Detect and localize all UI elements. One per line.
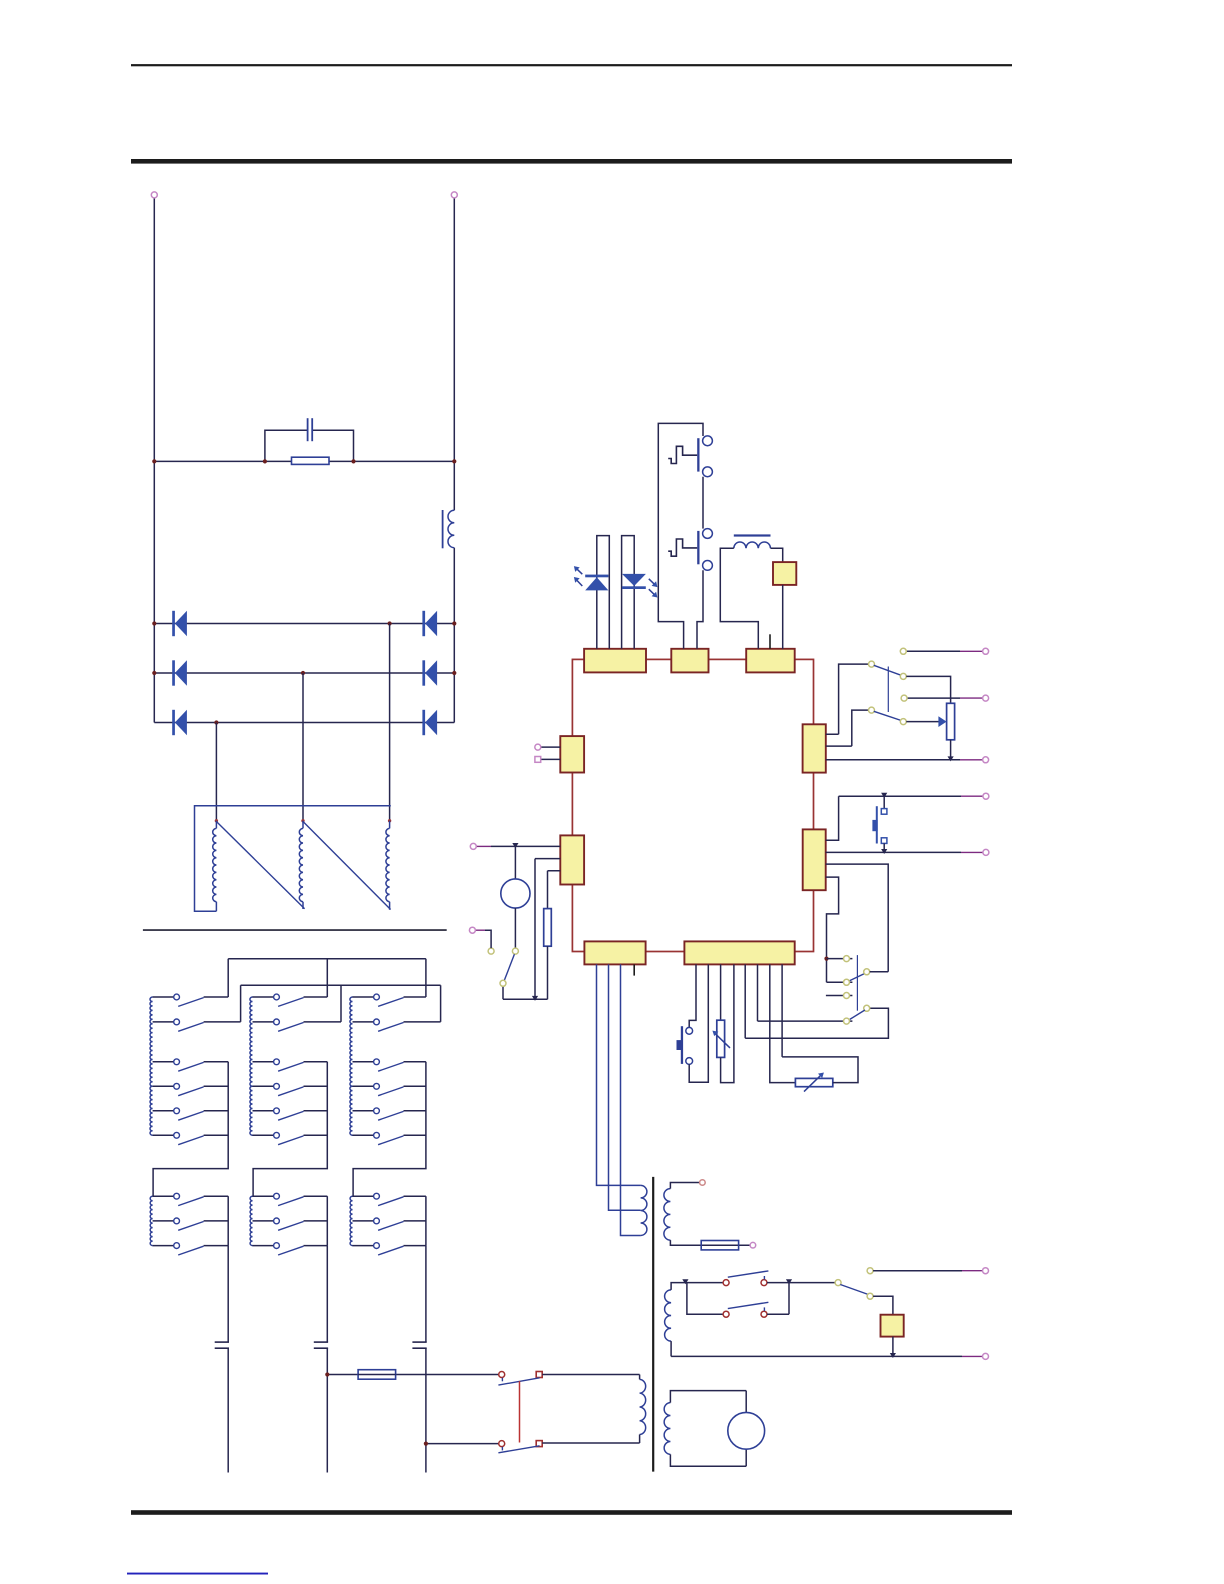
wire K1 tap C3 <box>153 1245 229 1247</box>
wire T2 sec1 bottom <box>670 1240 750 1245</box>
wire K3 tap B4 <box>353 1134 426 1136</box>
wire net D magenta <box>961 795 983 797</box>
wire K1 tap A2 <box>153 985 241 1022</box>
wire P9 pin6 <box>757 964 759 1021</box>
wire RP3 to P9 pin8 <box>782 964 858 1082</box>
wire net G magenta <box>475 929 485 931</box>
wire net F <box>491 845 560 847</box>
wire K1 tap C1 <box>153 1195 229 1197</box>
switch S28 <box>274 1218 304 1230</box>
relay coil K2a <box>250 997 253 1135</box>
push button SB1 <box>668 436 712 477</box>
wire parallel out <box>767 1283 789 1315</box>
separator line <box>143 929 447 931</box>
wire phase W drop <box>389 624 391 821</box>
diode D3 <box>172 710 187 735</box>
node S13 throw2 <box>844 979 850 985</box>
junction net D <box>881 793 887 798</box>
push button SB3 <box>677 1026 693 1064</box>
potentiometer RP1 <box>938 703 954 740</box>
wire P8 pin3 to T2 <box>621 964 641 1235</box>
wire SB3 to P9 pin2 <box>689 964 708 1082</box>
junction S13 feed <box>824 957 828 961</box>
capacitor C4 <box>412 1342 426 1348</box>
diode D1 <box>172 611 187 636</box>
winding W1 <box>213 821 217 911</box>
pin block P4 <box>560 736 584 772</box>
T2 secondary 3 <box>664 1403 670 1455</box>
terminal J15 <box>983 1268 989 1274</box>
crystal Y1 <box>872 806 886 843</box>
wire button chain bottom <box>697 570 703 649</box>
switch S12 <box>869 707 902 720</box>
wire parallel branch <box>687 1283 723 1315</box>
node S13 common <box>864 969 870 975</box>
capacitor C2 <box>215 1342 229 1348</box>
wire bridge row 2 <box>154 672 454 674</box>
switch S17 <box>174 1193 204 1205</box>
switch S16 <box>174 1132 204 1144</box>
wire LED1 leads <box>597 536 610 649</box>
wire net I magenta <box>962 1270 983 1272</box>
wire K5 to net H <box>892 1337 894 1357</box>
switch S14 blade <box>850 1010 865 1019</box>
wire phase 3 down-lead <box>425 1246 427 1343</box>
T2 secondary 1 <box>664 1189 671 1241</box>
node S18 out <box>867 1293 873 1299</box>
LED D7 arrows <box>574 566 582 586</box>
switch S29 <box>274 1243 304 1255</box>
switch S16 <box>723 1271 768 1286</box>
wire net F magenta <box>476 845 491 847</box>
pin block P1 <box>584 649 646 673</box>
wire K2 tap C2 <box>253 1220 328 1222</box>
resistor R2 <box>544 909 552 947</box>
wire K2 tap C1 <box>253 1195 328 1197</box>
wire net E <box>826 851 961 853</box>
node S11 output <box>900 673 906 679</box>
wire phase 2 down-lead <box>326 1246 328 1343</box>
wire K1 tap B4 <box>153 1134 229 1136</box>
wire K1 tap B2 <box>153 1085 229 1087</box>
terminal J8 <box>535 744 541 750</box>
terminal J5 <box>983 757 989 763</box>
wire K3 tap C2 <box>353 1220 426 1222</box>
switch S34 <box>374 1083 404 1095</box>
pin block P5 <box>560 835 584 884</box>
terminal J10 <box>470 843 476 849</box>
wire L2 input bus (lower) <box>453 548 455 723</box>
terminal J6 <box>983 793 989 799</box>
page header rule (thick) <box>131 159 1012 164</box>
terminal J12 <box>700 1180 706 1186</box>
page header rule (thin) <box>131 64 1012 66</box>
switch S37 <box>374 1193 404 1205</box>
wire bottom rail <box>503 986 548 999</box>
pin block P6 <box>803 724 826 772</box>
wire W1-W2 link <box>216 822 304 909</box>
wire K1 tap C2 <box>153 1220 229 1222</box>
wire P4 pin1 <box>541 746 561 748</box>
wire P9 pin7 <box>770 964 796 1082</box>
wire K1 tap B1 <box>153 1061 229 1063</box>
wire selector rail 2 <box>241 984 441 986</box>
node S13 throw1 <box>844 956 850 962</box>
switch S10 link <box>519 1381 521 1442</box>
page footer rule <box>131 1510 1012 1515</box>
wire T2 sec2 bottom <box>670 1341 672 1356</box>
switch S23 <box>274 1059 304 1071</box>
wire S14 throw1 stub <box>826 995 853 997</box>
wire K2 tap B1 <box>253 1061 328 1063</box>
switch S18 <box>835 1280 868 1295</box>
wire P5 pin2 drop <box>535 859 560 1000</box>
node S14 throw1 <box>844 993 850 999</box>
pin block P9 <box>684 941 794 964</box>
terminal J11 <box>469 927 475 933</box>
wire S10 to T2 top <box>542 1374 639 1376</box>
switch S12 <box>174 1019 204 1031</box>
wire K3 output rail <box>425 1196 427 1245</box>
wire K1 output rail <box>227 1196 229 1245</box>
wire phase 2 tail <box>326 1348 328 1472</box>
terminal J3 <box>983 648 989 654</box>
wire to S18 <box>789 1282 835 1284</box>
wire P7 pin4 loop <box>826 877 839 982</box>
wire net H bottom <box>671 1355 962 1357</box>
switch S24 <box>274 1083 304 1095</box>
relay coil K3a <box>350 997 353 1135</box>
wire K3 tap B1 <box>353 1061 426 1063</box>
wire P9 pin5 <box>744 964 746 1038</box>
wire P8 pin2 to T2 <box>609 964 641 1210</box>
switch S26 <box>274 1132 304 1144</box>
switch S15 <box>488 948 518 986</box>
component K5 box <box>881 1315 904 1337</box>
junction dot fuse net <box>325 1372 329 1376</box>
component K4 box <box>773 562 796 585</box>
wire S18 to K5 <box>873 1296 893 1315</box>
T2 primary 2 <box>640 1379 646 1434</box>
wire L2 left lead <box>720 548 758 649</box>
wire K3 mid rail <box>353 1062 426 1196</box>
junction parallel out <box>786 1279 792 1284</box>
junction dots snubber <box>152 459 456 463</box>
wire P8 pin1 to T2 <box>597 964 641 1185</box>
node S11 upper throw <box>900 648 906 654</box>
wire pot bottom <box>950 740 952 760</box>
wire K3 tap C1 <box>353 1195 426 1197</box>
wire P9 pin3 <box>720 964 722 1020</box>
LED D7 <box>585 575 608 591</box>
wire net B magenta <box>960 697 983 699</box>
winding W2 <box>299 821 303 909</box>
wire K3 tap A2 <box>353 985 441 1022</box>
switch S25 <box>274 1108 304 1120</box>
switch S33 <box>374 1059 404 1071</box>
fuse F2 <box>701 1241 738 1250</box>
wire K2 tap B4 <box>253 1134 328 1136</box>
wire L1 input bus <box>153 198 155 723</box>
wire T2 sec3 top <box>670 1391 746 1403</box>
wire K2 output rail <box>326 1196 328 1245</box>
wire net I <box>873 1270 962 1272</box>
wire T2 pri2 joins <box>639 1375 641 1444</box>
junction net C <box>948 756 954 761</box>
wire K4 to P3 <box>782 585 784 649</box>
wire K3 tap A1 <box>353 959 426 997</box>
winding bus bar <box>195 806 391 911</box>
wire phase 1 tail <box>227 1348 229 1472</box>
junction sw parallel <box>682 1279 688 1284</box>
wire K3 tap C3 <box>353 1245 426 1247</box>
diode D6 <box>422 710 437 735</box>
relay coil K1a <box>150 997 153 1135</box>
capacitor C1 <box>308 418 313 441</box>
wire K1 mid rail <box>153 1062 228 1196</box>
wire selector rail 1 <box>228 958 426 960</box>
wire S13 throw1 <box>827 958 853 960</box>
terminal J13 <box>750 1242 756 1248</box>
terminal J7 <box>983 849 989 855</box>
winding W3 <box>386 821 390 910</box>
wire RP2 to P9 pin4 <box>721 964 734 1082</box>
pin block P8 <box>584 941 645 964</box>
switch gang link S11-S12 <box>887 667 889 713</box>
wire snubber branch <box>265 430 354 461</box>
inductor L2 <box>734 534 771 548</box>
wire L2 input bus (upper) <box>453 198 455 510</box>
wire K2 tap A2 <box>253 985 342 1022</box>
wire K3 tap B3 <box>353 1110 426 1112</box>
switch S17 <box>723 1302 768 1317</box>
wire S13 common <box>870 971 889 973</box>
transformer T2 core <box>652 1177 654 1472</box>
wire button loop <box>658 423 703 648</box>
terminal J9 <box>535 757 541 763</box>
wire S14 common loop <box>745 1008 888 1038</box>
diode D2 <box>172 660 187 685</box>
LED D8 arrows <box>649 579 658 598</box>
wire net C <box>826 759 960 761</box>
junction K5 net H <box>890 1353 896 1358</box>
node S14 throw2 <box>844 1018 850 1024</box>
wire P4 pin2 <box>541 758 561 760</box>
trimmer RP3 <box>795 1073 832 1092</box>
wire S11 out to pot <box>906 676 950 703</box>
LED D8 <box>622 574 646 589</box>
wire net H magenta <box>962 1355 983 1357</box>
wire P8 pin4 stub <box>633 964 635 975</box>
switch S31 <box>374 994 404 1006</box>
relay coil K3b <box>350 1196 352 1245</box>
node S14 common <box>864 1005 870 1011</box>
switch S21 <box>274 994 304 1006</box>
wire T2 sec1 top <box>670 1183 699 1189</box>
switch gang link S13-S14 <box>856 955 858 1011</box>
wire net B <box>907 697 960 699</box>
switch S14 <box>174 1083 204 1095</box>
wire button chain mid <box>702 477 704 529</box>
capacitor C3 <box>314 1342 328 1348</box>
wire motor M1 top lead <box>514 846 516 879</box>
wire net E magenta <box>961 851 983 853</box>
node dots winding tops <box>215 819 392 822</box>
wire switch lower net <box>426 1443 499 1445</box>
wire R2 bottom <box>547 946 549 999</box>
wire S13 throw2 <box>827 981 853 983</box>
wire K2 tap B2 <box>253 1085 328 1087</box>
switch S13 blade <box>850 973 865 980</box>
switch S15 <box>174 1108 204 1120</box>
pin block P2 <box>671 649 708 673</box>
switch S39 <box>374 1243 404 1255</box>
junction bottom rail <box>532 996 538 1001</box>
wire fuse net <box>327 1374 498 1376</box>
terminal J14 <box>983 1353 989 1359</box>
wire S14 throw2 <box>758 1020 853 1022</box>
wire phase 1 down-lead <box>227 1246 229 1343</box>
switch S13 <box>174 1059 204 1071</box>
junction dot lower net <box>424 1442 428 1446</box>
wire bridge row 3 <box>154 722 454 724</box>
wire Y1 bottom lead <box>883 843 885 852</box>
node net B <box>901 695 907 701</box>
diode D4 <box>422 611 437 636</box>
junction net F <box>512 843 518 848</box>
wire Y1 top lead <box>883 796 885 808</box>
switch S35 <box>374 1108 404 1120</box>
terminal J2 <box>451 192 457 198</box>
switch S32 <box>374 1019 404 1031</box>
fuse F1 <box>358 1370 396 1380</box>
switch S18 <box>174 1218 204 1230</box>
switch S11 <box>869 661 902 675</box>
node S12 output <box>900 719 906 725</box>
wire K3 tap B2 <box>353 1085 426 1087</box>
resistor R1 <box>292 457 330 464</box>
switch S38 <box>374 1218 404 1230</box>
pin block P7 <box>803 829 826 890</box>
wire T2 sec2 top <box>671 1283 723 1290</box>
terminal J4 <box>983 695 989 701</box>
trimmer RP2 <box>712 1020 730 1057</box>
wire net C magenta <box>960 759 983 761</box>
inductor L1 <box>443 510 455 548</box>
wire K2 tap A1 <box>253 959 328 997</box>
pin block P3 <box>746 649 795 673</box>
wire K1 tap B3 <box>153 1110 229 1112</box>
wire net D <box>826 796 961 840</box>
terminal J1 <box>151 192 157 198</box>
wire net A magenta <box>960 650 983 652</box>
wire S10 to T2 bottom <box>542 1442 639 1444</box>
wire K2 tap B3 <box>253 1110 328 1112</box>
wire stub P3 <box>769 634 771 649</box>
wire snubber net <box>154 460 454 462</box>
wire P7 pin3 loop <box>826 864 889 972</box>
switch S19 <box>174 1243 204 1255</box>
wire P5 pin3 lead <box>548 871 561 909</box>
wire K2 mid rail <box>253 1062 327 1196</box>
motor M2 <box>728 1412 765 1449</box>
meter M1 <box>501 879 530 908</box>
IC U1 outline <box>572 659 813 951</box>
wire L2 right lead <box>771 548 783 562</box>
wire K2 tap C3 <box>253 1245 328 1247</box>
junction net E <box>881 849 887 854</box>
wire bridge row 1 <box>154 623 454 625</box>
push button SB2 <box>668 529 712 571</box>
switch S27 <box>274 1193 304 1205</box>
wire S11 common feed <box>826 664 869 734</box>
wire phase U drop <box>215 723 217 821</box>
T2 primary 1 <box>641 1185 647 1235</box>
wire motor M1 bottom lead <box>514 908 516 948</box>
wire net G <box>485 930 491 948</box>
switch S11 <box>174 994 204 1006</box>
switch S36 <box>374 1132 404 1144</box>
wire motor M2 leads <box>745 1391 747 1467</box>
relay coil K2b <box>250 1196 252 1245</box>
wire K1 tap A1 <box>153 959 229 997</box>
wire W2-W3 link <box>303 822 391 910</box>
wire phase V drop <box>302 673 304 821</box>
node net I <box>867 1268 873 1274</box>
junction dots bridge <box>152 621 456 724</box>
T2 secondary 2 <box>665 1290 672 1341</box>
wire P9 pin1 to SB3 <box>689 964 696 1027</box>
switch S22 <box>274 1019 304 1031</box>
wire net A <box>906 650 960 652</box>
footer link underline <box>127 1573 268 1575</box>
diode D5 <box>422 660 437 685</box>
wire S12 common feed <box>826 710 869 746</box>
relay coil K1b <box>150 1196 152 1245</box>
wire phase 3 tail <box>425 1348 427 1472</box>
switch S10 (DPST) <box>498 1372 542 1453</box>
wire S12 out to wiper <box>906 721 939 723</box>
wire LED2 leads <box>622 536 635 649</box>
wire T2 sec3 bottom <box>670 1454 746 1466</box>
